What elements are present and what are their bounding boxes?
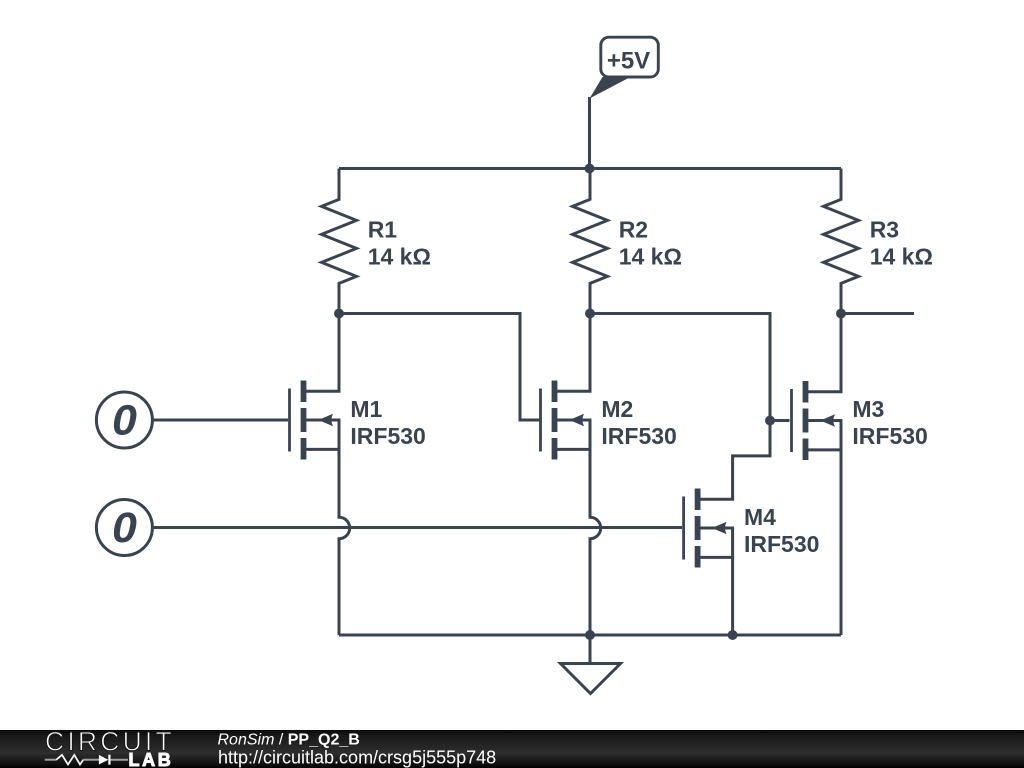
- svg-text:M3: M3: [852, 396, 884, 422]
- wire +5V to top rail: [588, 97, 591, 169]
- wire M3 drain to R3 junction: [840, 314, 843, 392]
- svg-text:14 kΩ: 14 kΩ: [368, 244, 431, 270]
- resistor R3: [824, 169, 859, 314]
- svg-text:M1: M1: [350, 396, 382, 422]
- svg-text:M4: M4: [744, 504, 776, 530]
- svg-text:IRF530: IRF530: [852, 423, 927, 449]
- wire bottom rail: [339, 634, 841, 637]
- node R3 bottom junction: [836, 309, 846, 319]
- CircuitLab logo schematic line: [45, 755, 128, 765]
- label R2 value: [619, 216, 682, 269]
- svg-text:http://circuitlab.com/crsg5j55: http://circuitlab.com/crsg5j555p748: [218, 748, 496, 768]
- label M3: [852, 396, 927, 449]
- wire top rail: [339, 167, 841, 170]
- wire R2 junction to M3 gate: [590, 314, 790, 421]
- wire M3 source to bottom rail: [840, 450, 843, 635]
- wire M1 drain to R1 junction: [338, 314, 341, 392]
- wire M1 source to bottom rail with hop: [339, 449, 350, 635]
- wire V1 to M1 gate: [152, 419, 288, 422]
- wire M3 gate junction to M4 drain: [733, 421, 770, 500]
- source V2 circle 0: [96, 500, 152, 556]
- svg-text:R1: R1: [368, 216, 398, 242]
- node M3 gate junction: [765, 416, 775, 426]
- label M1: [350, 396, 425, 449]
- svg-text:M2: M2: [601, 396, 633, 422]
- svg-text:0: 0: [112, 396, 137, 444]
- svg-text:IRF530: IRF530: [601, 423, 676, 449]
- wire ground lead: [589, 635, 592, 664]
- svg-text:14 kΩ: 14 kΩ: [870, 244, 933, 270]
- svg-text:R2: R2: [619, 216, 648, 242]
- label M4: [744, 504, 819, 557]
- wire V2 to M4 gate: [152, 526, 682, 529]
- source V1 circle 0: [96, 392, 152, 448]
- node bottom rail / M4 junction: [728, 630, 738, 640]
- node R2 bottom junction: [585, 309, 595, 319]
- transistor M3: [792, 381, 843, 460]
- wire R1 junction to M2 gate: [339, 314, 540, 421]
- wire M2 drain to R2 junction: [589, 314, 592, 392]
- svg-text:IRF530: IRF530: [744, 531, 819, 557]
- resistor R2: [573, 169, 608, 314]
- footer bar: [0, 730, 1024, 768]
- node R1 bottom junction: [334, 309, 344, 319]
- svg-text:LAB: LAB: [129, 750, 174, 768]
- transistor M1: [290, 381, 341, 460]
- label R1 value: [368, 216, 431, 269]
- svg-text:IRF530: IRF530: [350, 423, 425, 449]
- svg-text:0: 0: [112, 504, 137, 552]
- wire M4 source to bottom rail: [731, 557, 734, 635]
- wire M2 source to bottom rail with hop: [590, 449, 601, 635]
- node bottom rail / ground junction: [585, 630, 595, 640]
- transistor M2: [541, 381, 592, 460]
- wire output stub from R3 junction: [841, 312, 914, 315]
- label R3 value: [870, 216, 933, 269]
- resistor R1: [322, 169, 357, 314]
- junction top rail / +5V: [585, 164, 595, 174]
- ground: [561, 664, 621, 694]
- svg-text:R3: R3: [870, 216, 899, 242]
- label M2: [601, 396, 676, 449]
- net label +5V callout box: [590, 37, 659, 98]
- transistor M4: [684, 489, 735, 568]
- svg-text:+5V: +5V: [607, 48, 650, 75]
- svg-text:14 kΩ: 14 kΩ: [619, 244, 682, 270]
- svg-text:RonSim / PP_Q2_B: RonSim / PP_Q2_B: [218, 732, 360, 749]
